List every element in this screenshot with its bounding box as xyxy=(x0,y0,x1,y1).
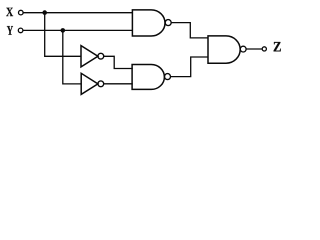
NAND gate U2 (bottom) body xyxy=(132,65,164,90)
wire U4 output to NAND U2 pin 2 xyxy=(104,83,133,85)
node X label xyxy=(6,8,13,16)
output terminal Z xyxy=(262,47,266,51)
wire U3 output to NAND U2 pin 1 xyxy=(104,56,133,68)
node Z label xyxy=(274,42,281,51)
input terminal Y xyxy=(18,28,23,33)
NAND gate U1 (top) body xyxy=(132,10,165,36)
wire Y branch to inverter U4 input xyxy=(63,30,81,83)
junction dot on X line xyxy=(42,10,47,15)
inverter U4 bubble xyxy=(98,81,104,87)
wire X branch to inverter U3 input xyxy=(45,13,81,57)
NAND gate U5 (output) body xyxy=(208,36,240,63)
junction dot on Y line xyxy=(61,28,66,33)
NAND U1 output bubble xyxy=(165,20,171,26)
inverter U4 (bottom) triangle xyxy=(81,73,98,94)
inverter U3 bubble xyxy=(98,53,104,59)
wire Y input to NAND U1 pin 2 xyxy=(23,29,133,31)
node Y label xyxy=(7,26,13,35)
wire X input to NAND U1 pin 1 xyxy=(23,12,133,14)
inverter U3 (top) triangle xyxy=(81,46,98,67)
NAND U2 output bubble xyxy=(165,74,171,80)
wire U1 output to NAND U5 pin 1 xyxy=(171,23,208,38)
input terminal X xyxy=(19,10,24,15)
NAND U5 output bubble xyxy=(240,46,246,52)
wire U2 output to NAND U5 pin 2 xyxy=(171,57,209,77)
wire U5 output to terminal Z xyxy=(246,48,262,50)
